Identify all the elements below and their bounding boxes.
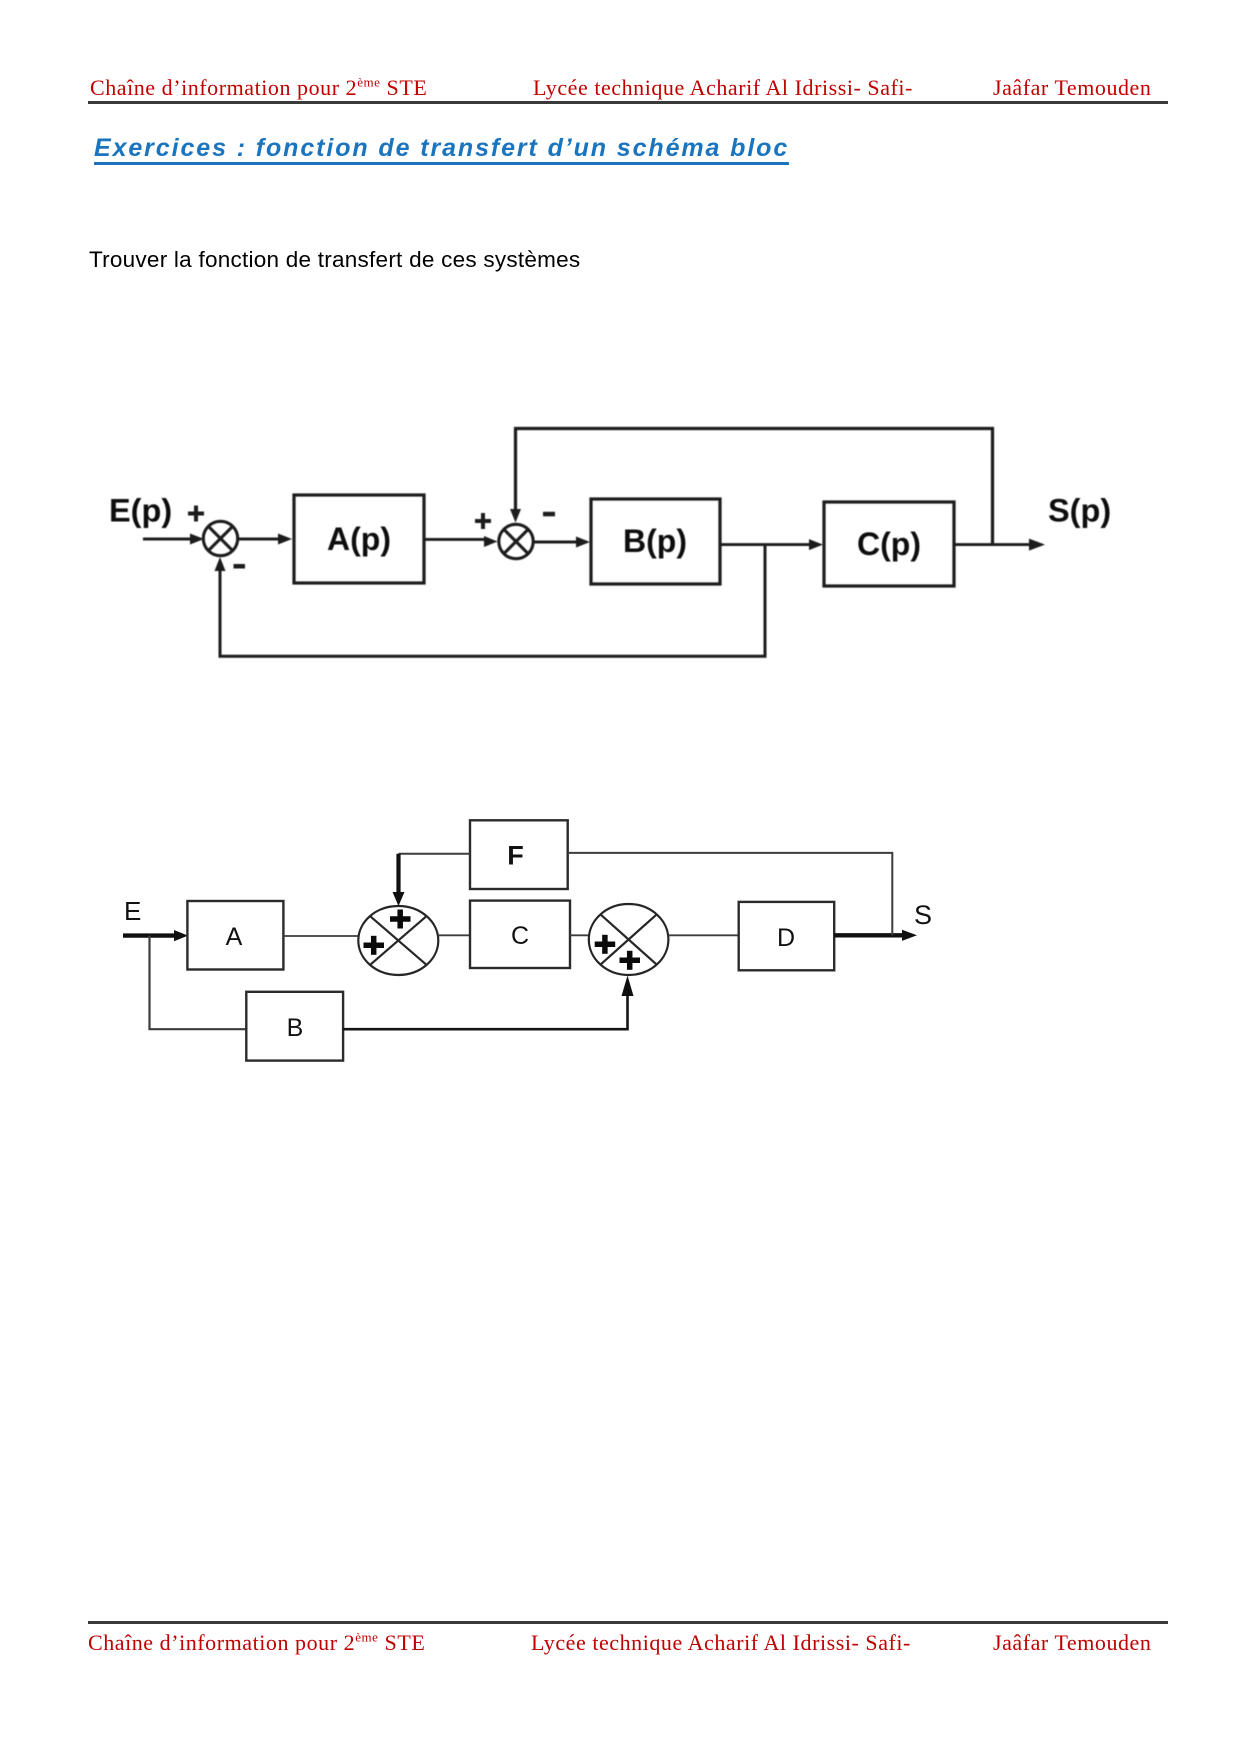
- wire inner feedback from B(p) output to S1 (minus): [215, 545, 766, 657]
- wire outer feedback from output to S2 (minus): [510, 429, 993, 545]
- wire E(p) input: [143, 534, 204, 545]
- wire B to S4 (up arrow): [343, 976, 633, 1030]
- svg-text:E: E: [124, 896, 141, 926]
- svg-text:C: C: [511, 922, 529, 950]
- block D: [739, 902, 835, 970]
- wire A to summer S3: [283, 935, 359, 937]
- wire S4 to D: [668, 934, 738, 936]
- minus sign at summer S2: [543, 512, 555, 517]
- footer center text: [531, 1630, 911, 1656]
- svg-text:B: B: [287, 1014, 304, 1042]
- wire A(p) to S2: [424, 536, 498, 547]
- plus sign left of S4: [595, 935, 616, 954]
- plus sign bottom of S4: [620, 951, 641, 970]
- title: [94, 137, 789, 165]
- block C(p): [824, 502, 954, 586]
- block B(p): [591, 499, 720, 584]
- plus sign left of S3: [364, 936, 385, 955]
- header rule: [88, 101, 1168, 104]
- wire input junction down to B: [150, 936, 247, 1030]
- footer rule: [88, 1621, 1168, 1624]
- header left text: [90, 75, 427, 101]
- footer right text: [993, 1630, 1151, 1656]
- wire D to output S (bold): [834, 930, 917, 941]
- block F: [470, 820, 568, 889]
- wire S1 to A(p): [239, 534, 292, 545]
- wire E input (bold): [123, 930, 188, 941]
- svg-text:F: F: [507, 841, 524, 871]
- header right text: [993, 75, 1151, 101]
- summing junction S2: [499, 524, 533, 558]
- wire C(p) to output S(p): [954, 539, 1045, 551]
- wire output junction to F right branch: [568, 853, 893, 935]
- block A: [187, 901, 283, 970]
- block B: [246, 992, 343, 1061]
- minus sign at summer S1: [234, 564, 246, 569]
- svg-text:S: S: [914, 900, 932, 930]
- wire F left branch down into S3: [393, 854, 471, 906]
- header center text: [533, 75, 913, 101]
- wire C to summer S4: [570, 934, 589, 936]
- block C: [470, 901, 570, 968]
- plus sign at summer S1: [188, 506, 204, 522]
- summing junction S3: [358, 906, 438, 975]
- svg-text:A: A: [226, 923, 243, 951]
- block A(p): [294, 495, 424, 583]
- svg-text:D: D: [777, 924, 795, 952]
- summing junction S1: [203, 521, 237, 555]
- plus sign at summer S2: [475, 513, 491, 529]
- footer left text: [88, 1630, 425, 1656]
- plus sign top of S3: [390, 910, 411, 929]
- summing junction S4: [589, 904, 669, 975]
- body text: [89, 247, 580, 273]
- wire S3 to C: [438, 934, 470, 936]
- wire S2 to B(p): [535, 537, 591, 548]
- wire B(p) to C(p): [720, 539, 823, 550]
